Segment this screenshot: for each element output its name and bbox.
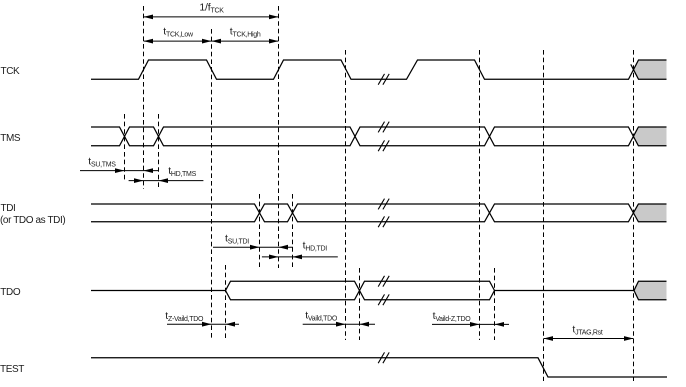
svg-text:TCK: TCK xyxy=(1,66,21,77)
svg-text:TDO: TDO xyxy=(0,287,21,298)
svg-text:TEST: TEST xyxy=(0,364,24,375)
svg-text:TDI: TDI xyxy=(1,203,16,214)
svg-text:(or TDO as TDI): (or TDO as TDI) xyxy=(0,215,65,226)
svg-text:TMS: TMS xyxy=(0,133,21,144)
